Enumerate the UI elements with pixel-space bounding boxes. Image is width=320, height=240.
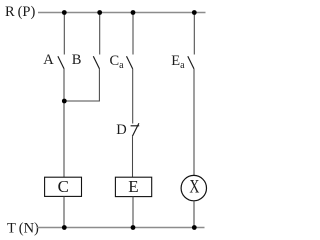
contact Ea [188, 56, 194, 69]
svg-text:B: B [72, 52, 82, 68]
node junction A-B [62, 99, 67, 104]
svg-text:E: E [128, 177, 138, 196]
node dot bottom X [192, 225, 197, 230]
svg-text:D: D [116, 122, 126, 138]
coil C box [45, 177, 82, 196]
node dot rail Ca [131, 10, 136, 15]
svg-text:R (P): R (P) [5, 4, 35, 20]
node dot rail A [62, 10, 67, 15]
wire top rail R [38, 12, 206, 14]
wire branch A upper [63, 13, 65, 55]
wire bottom rail T [37, 227, 205, 229]
wire C to bottom rail [63, 196, 65, 227]
coil E box [115, 177, 151, 196]
contact A [58, 56, 64, 69]
wire branch Ea middle [193, 69, 195, 175]
contact Ca [127, 56, 133, 69]
wire branch D lower [132, 136, 134, 177]
svg-text:X: X [189, 176, 199, 197]
svg-text:C: C [58, 177, 69, 196]
wire branch A lower [63, 69, 65, 177]
svg-text:A: A [43, 52, 54, 68]
wire branch Ca middle [132, 69, 134, 124]
node dot bottom C [62, 225, 67, 230]
wire E to bottom rail [132, 197, 134, 228]
wire branch B upper [99, 13, 101, 55]
lamp X circle [181, 175, 206, 200]
contact B [93, 56, 99, 69]
contact D (normally closed) [131, 123, 140, 136]
node dot bottom E [131, 225, 136, 230]
node dot rail Ea [192, 10, 197, 15]
node dot rail B [97, 10, 102, 15]
wire branch B lower [64, 69, 99, 101]
svg-text:T (N): T (N) [7, 221, 39, 237]
wire branch Ca upper [132, 13, 134, 55]
wire X to bottom rail [193, 201, 195, 228]
wire branch Ea upper [193, 13, 195, 55]
